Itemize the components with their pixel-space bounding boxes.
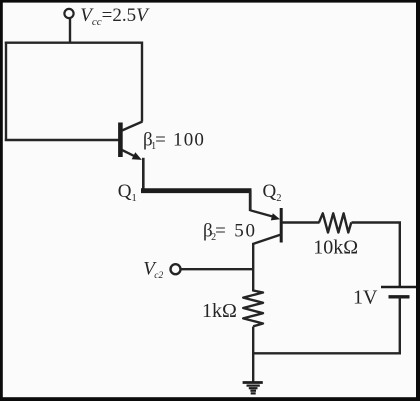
label B1 = 100 [143, 129, 205, 152]
wire: Vcc terminal stem [69, 19, 71, 44]
label 1kOhm [202, 300, 237, 322]
svg-text:Vcc=2.5V: Vcc=2.5V [80, 5, 150, 28]
wire: battery to bottom rail [399, 297, 401, 355]
wire: bottom rail [252, 352, 401, 354]
node Vc2 terminal circle [171, 264, 181, 274]
transistor Q2 (PNP, emitter arrow into bar) [250, 208, 281, 244]
svg-text:β1= 100: β1= 100 [143, 129, 205, 152]
wire: loop top (Vcc rail) [5, 42, 143, 44]
svg-text:10kΩ: 10kΩ [313, 237, 358, 259]
wire: Q2 collector down to R2 [252, 243, 254, 292]
wire: thick emitter bus Q1 to Q2 [141, 188, 252, 193]
ground [243, 383, 263, 394]
wire: bus drop at Q2 [249, 191, 252, 211]
resistor 10k zigzag [319, 213, 351, 232]
wire: Vc2 terminal to collector node [181, 268, 253, 270]
wire: Q1 emitter drop [142, 158, 145, 192]
wire: loop right side (Q1 collector to Vcc rail) [141, 42, 143, 122]
label Vc2 [143, 258, 163, 281]
svg-text:β2= 50: β2= 50 [203, 220, 257, 243]
wire: right rail down to battery [399, 222, 401, 288]
wire: loop bottom (base wire to Q1) [5, 139, 119, 141]
transistor Q1 [120, 122, 142, 160]
svg-text:1V: 1V [353, 287, 378, 309]
label 10kOhm [313, 237, 358, 259]
wire: R2 to ground [252, 327, 254, 383]
label Vcc=2.5V [80, 5, 150, 28]
node Vcc terminal circle [64, 9, 73, 18]
wire: resistor R1 to right rail [352, 221, 402, 223]
resistor 1k zigzag [243, 291, 263, 327]
svg-text:1kΩ: 1kΩ [202, 300, 237, 322]
label Q2 [263, 181, 282, 204]
label B2 = 50 [203, 220, 257, 243]
wire: loop left side [5, 42, 7, 142]
label 1V [353, 287, 378, 309]
label Q1 [118, 181, 137, 204]
battery V1 1V [381, 287, 417, 297]
wire: Q2 base to resistor R1 [282, 221, 320, 223]
